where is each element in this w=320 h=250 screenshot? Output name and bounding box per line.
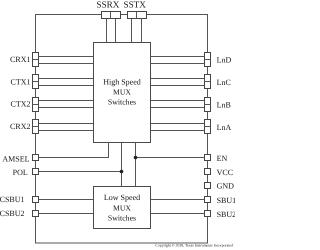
High Speed MUX block U1 <box>94 43 151 143</box>
svg-text:CSBU1: CSBU1 <box>0 195 25 204</box>
pin LnB <box>205 98 211 112</box>
wire CTX1 pair to HS MUX <box>39 79 94 86</box>
svg-text:GND: GND <box>217 182 235 191</box>
wire AMSEL to HS MUX <box>39 143 109 158</box>
wire SBU1 from LS MUX <box>151 199 205 201</box>
pin AMSEL <box>33 155 39 161</box>
pin SSRX <box>102 12 121 19</box>
pin SBU2 <box>205 211 211 217</box>
wire LnC pair from HS MUX <box>151 79 205 86</box>
svg-text:LnA: LnA <box>217 123 232 132</box>
wire POL to net 1 <box>39 171 122 173</box>
svg-text:CRX2: CRX2 <box>10 122 30 131</box>
device outline <box>36 15 208 244</box>
svg-text:MUX: MUX <box>113 87 131 96</box>
wire SSTX pair to HS MUX <box>132 19 142 43</box>
pin CRX1 <box>33 53 39 67</box>
svg-text:LnC: LnC <box>217 78 231 87</box>
wire CSBU1 to LS MUX <box>39 199 94 201</box>
svg-text:SBU1: SBU1 <box>217 196 235 205</box>
svg-text:MUX: MUX <box>113 203 131 212</box>
svg-text:Switches: Switches <box>108 214 136 223</box>
svg-text:AMSEL: AMSEL <box>2 154 29 163</box>
wire CRX1 pair to HS MUX <box>39 57 94 64</box>
pin LnD <box>205 53 211 67</box>
wire CSBU2 to LS MUX <box>39 213 94 215</box>
svg-text:CRX1: CRX1 <box>10 55 30 64</box>
svg-text:High Speed: High Speed <box>103 78 141 87</box>
svg-text:LnB: LnB <box>217 101 231 110</box>
pin CSBU1 <box>33 197 39 203</box>
pin POL <box>33 169 39 175</box>
pin SSTX <box>128 12 147 19</box>
pin EN <box>205 155 211 161</box>
svg-text:SBU2: SBU2 <box>217 210 235 219</box>
svg-text:VCC: VCC <box>217 168 233 177</box>
svg-text:Switches: Switches <box>108 97 136 106</box>
pin LnA <box>205 120 211 134</box>
pin CSBU2 <box>33 211 39 217</box>
svg-text:Low Speed: Low Speed <box>104 193 140 202</box>
Low Speed MUX block U2 <box>94 187 151 229</box>
pin SBU1 <box>205 197 211 203</box>
svg-text:LnD: LnD <box>217 56 232 65</box>
wire CRX2 pair to HS MUX <box>39 124 94 131</box>
pin VCC <box>205 169 211 175</box>
pin CTX2 <box>33 98 39 112</box>
wire control net 1 HS to LS <box>121 143 123 187</box>
wire LnA pair from HS MUX <box>151 124 205 131</box>
junction EN/net2 <box>134 156 138 160</box>
svg-text:CTX2: CTX2 <box>11 100 31 109</box>
svg-text:EN: EN <box>217 154 228 163</box>
svg-text:Copyright © 2018, Texas Instru: Copyright © 2018, Texas Instruments Inco… <box>155 243 233 248</box>
svg-text:CSBU2: CSBU2 <box>0 209 25 218</box>
wire SBU2 from LS MUX <box>151 213 205 215</box>
pin CRX2 <box>33 120 39 134</box>
pin LnC <box>205 75 211 89</box>
svg-text:SSTX: SSTX <box>123 0 146 10</box>
svg-text:SSRX: SSRX <box>96 0 119 10</box>
pin CTX1 <box>33 75 39 89</box>
junction POL/net1 <box>120 170 124 174</box>
pin GND <box>205 183 211 189</box>
svg-text:POL: POL <box>13 168 28 177</box>
copyright note <box>155 243 233 248</box>
wire EN to net 2 <box>136 157 205 159</box>
wire LnD pair from HS MUX <box>151 57 205 64</box>
wire control net 2 HS to LS <box>135 143 137 187</box>
wire SSRX pair to HS MUX <box>107 19 116 43</box>
wire LnB pair from HS MUX <box>151 101 205 108</box>
wire CTX2 pair to HS MUX <box>39 101 94 108</box>
svg-text:CTX1: CTX1 <box>11 77 31 86</box>
